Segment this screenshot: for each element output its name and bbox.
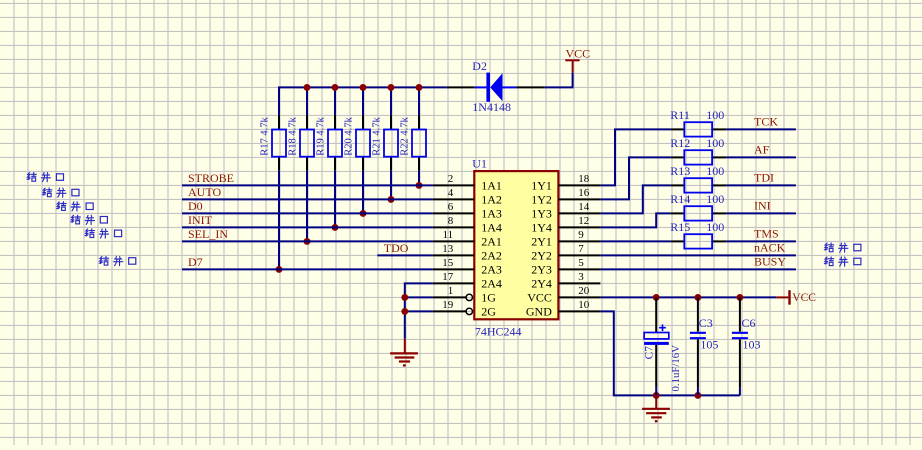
svg-text:2Y1: 2Y1 bbox=[531, 234, 552, 248]
port label 结并口 (right) #1 bbox=[824, 243, 860, 252]
resistor R22 4.7k (vertical) bbox=[400, 115, 427, 171]
svg-text:9: 9 bbox=[578, 229, 584, 241]
junction: bus / R22 bbox=[416, 84, 423, 91]
svg-text:C3: C3 bbox=[699, 316, 713, 330]
svg-text:TMS: TMS bbox=[754, 227, 779, 241]
svg-text:2A1: 2A1 bbox=[481, 234, 502, 248]
wire: R20 down to signal row bbox=[362, 171, 364, 214]
svg-text:INI: INI bbox=[754, 199, 771, 213]
svg-text:5: 5 bbox=[578, 257, 584, 269]
svg-text:STROBE: STROBE bbox=[188, 171, 234, 185]
port label 结并口 (to parallel port) #3 bbox=[57, 202, 94, 211]
junction: 1G / gnd tie bbox=[401, 294, 408, 301]
svg-text:R11: R11 bbox=[670, 108, 690, 122]
svg-text:1Y1: 1Y1 bbox=[531, 178, 552, 192]
svg-text:SEL_IN: SEL_IN bbox=[188, 227, 228, 241]
wire: net BUSY bbox=[600, 268, 796, 270]
wire: net SEL_IN bbox=[182, 240, 433, 242]
wire: GND rail from U1 pin 10 bbox=[600, 311, 740, 395]
svg-text:R15: R15 bbox=[670, 220, 690, 234]
U1 pin 14 (1Y3) bbox=[531, 201, 600, 220]
wire: R22 down to signal row bbox=[418, 171, 420, 186]
svg-text:VCC: VCC bbox=[566, 46, 591, 60]
resistor R11 100 (horizontal) bbox=[671, 122, 726, 136]
wire: net nACK bbox=[600, 254, 796, 256]
svg-text:8: 8 bbox=[448, 215, 454, 227]
svg-text:INIT: INIT bbox=[188, 213, 213, 227]
svg-text:74HC244: 74HC244 bbox=[475, 324, 522, 338]
svg-text:4: 4 bbox=[448, 187, 454, 199]
wire: net INI (U1 to R14) bbox=[600, 213, 670, 227]
svg-text:VCC: VCC bbox=[792, 292, 816, 304]
svg-text:1Y2: 1Y2 bbox=[531, 192, 552, 206]
wire: net TMS (R15 to port) bbox=[726, 240, 796, 242]
svg-text:R12: R12 bbox=[670, 136, 690, 150]
capacitor C3 105 bbox=[690, 297, 706, 395]
U1 pin 2 (1A1) bbox=[433, 173, 502, 192]
port label 结并口 (to parallel port) #4 bbox=[71, 215, 108, 224]
resistor R18 4.7k (vertical) bbox=[288, 115, 315, 171]
wire: net TMS (U1 to R15) bbox=[600, 240, 670, 242]
U1 pin 13 (2A2) bbox=[433, 243, 502, 262]
junction: R18 / signal wire bbox=[304, 238, 311, 245]
svg-text:C6: C6 bbox=[742, 316, 756, 330]
wire: net AF (R12 to port) bbox=[726, 156, 796, 158]
svg-text:R13: R13 bbox=[670, 164, 690, 178]
svg-text:100: 100 bbox=[706, 108, 724, 122]
svg-text:1Y4: 1Y4 bbox=[531, 220, 552, 234]
junction: bus / R18 bbox=[304, 84, 311, 91]
svg-text:1G: 1G bbox=[481, 290, 496, 304]
port label 结并口 (to parallel port) #6 bbox=[99, 256, 136, 265]
svg-text:2G: 2G bbox=[481, 304, 496, 318]
svg-text:15: 15 bbox=[442, 257, 454, 269]
wire: net INIT bbox=[182, 226, 433, 228]
svg-text:100: 100 bbox=[706, 192, 724, 206]
U1 pin 17 (2A4) bbox=[433, 271, 502, 290]
svg-text:10: 10 bbox=[578, 299, 590, 311]
wire: bus drop to R19 bbox=[334, 87, 336, 115]
svg-text:1A4: 1A4 bbox=[481, 220, 502, 234]
svg-text:VCC: VCC bbox=[527, 290, 552, 304]
svg-text:nACK: nACK bbox=[754, 241, 786, 255]
U1 pin 4 (1A2) bbox=[433, 187, 502, 206]
svg-text:3: 3 bbox=[578, 271, 584, 283]
IC U1 74HC244 bbox=[433, 171, 601, 319]
wire: net D0 bbox=[182, 212, 433, 214]
svg-text:D0: D0 bbox=[188, 199, 203, 213]
wire: net TDI (R13 to port) bbox=[726, 184, 796, 186]
U1 pin 6 (1A3) bbox=[433, 201, 502, 220]
svg-text:2Y3: 2Y3 bbox=[531, 262, 552, 276]
U1 pin 3 (2Y4) bbox=[531, 271, 600, 290]
svg-text:AF: AF bbox=[754, 143, 770, 157]
svg-text:GND: GND bbox=[526, 304, 552, 318]
wire: net TDO bbox=[377, 254, 433, 256]
svg-text:2A2: 2A2 bbox=[481, 248, 502, 262]
svg-text:1A2: 1A2 bbox=[481, 192, 502, 206]
svg-text:R19 4.7k: R19 4.7k bbox=[316, 117, 327, 156]
wire: net TDI (U1 to R13) bbox=[600, 185, 670, 213]
wire: bus drop to R22 bbox=[418, 87, 420, 115]
wire: pull-up bus (R17..R22 tops to diode D2) bbox=[279, 87, 447, 115]
svg-text:D2: D2 bbox=[472, 59, 487, 73]
svg-text:TCK: TCK bbox=[754, 115, 778, 129]
U1 pin 15 (2A3) bbox=[433, 257, 502, 276]
wire: net INI (R14 to port) bbox=[726, 212, 796, 214]
wire: net D7 bbox=[182, 268, 433, 270]
U1 pin 11 (2A1) bbox=[433, 229, 502, 248]
resistor R15 100 (horizontal) bbox=[671, 234, 726, 248]
svg-text:BUSY: BUSY bbox=[754, 255, 786, 269]
wire: 2G stub bbox=[405, 310, 433, 312]
svg-text:1: 1 bbox=[448, 285, 454, 297]
resistor R13 100 (horizontal) bbox=[671, 178, 726, 192]
svg-text:11: 11 bbox=[443, 229, 454, 241]
svg-text:7: 7 bbox=[578, 243, 584, 255]
svg-text:2Y4: 2Y4 bbox=[531, 276, 552, 290]
junction: 2G / gnd tie bbox=[401, 308, 408, 315]
wire: net AF (U1 to R12) bbox=[600, 157, 670, 199]
capacitor C7 0.1uF/16V (electrolytic) bbox=[644, 297, 669, 395]
svg-text:0.1uF/16V: 0.1uF/16V bbox=[670, 345, 682, 392]
svg-text:D7: D7 bbox=[188, 255, 203, 269]
wire: R18 down to signal row bbox=[306, 171, 308, 242]
junction: bus / R20 bbox=[360, 84, 367, 91]
svg-text:2Y2: 2Y2 bbox=[531, 248, 552, 262]
svg-text:R17 4.7k: R17 4.7k bbox=[260, 117, 271, 156]
U1 pin 10 (GND) bbox=[526, 299, 601, 318]
svg-text:TDO: TDO bbox=[384, 241, 409, 255]
svg-text:1A3: 1A3 bbox=[481, 206, 502, 220]
svg-text:19: 19 bbox=[442, 299, 454, 311]
junction: bus / R19 bbox=[332, 84, 339, 91]
junction: VCC rail / cap column x=656.2 bbox=[653, 294, 660, 301]
svg-text:R14: R14 bbox=[670, 192, 690, 206]
junction: R22 / signal wire bbox=[416, 182, 423, 189]
svg-text:17: 17 bbox=[442, 271, 454, 283]
svg-text:20: 20 bbox=[578, 285, 590, 297]
svg-text:R20 4.7k: R20 4.7k bbox=[344, 117, 355, 156]
ground symbol (U1 enables) bbox=[390, 339, 418, 366]
svg-text:1N4148: 1N4148 bbox=[472, 100, 511, 114]
wire: VCC rail from U1 pin 20 bbox=[600, 296, 776, 298]
svg-text:100: 100 bbox=[706, 164, 724, 178]
svg-text:12: 12 bbox=[578, 215, 589, 227]
svg-text:105: 105 bbox=[700, 337, 718, 351]
U1 body bbox=[474, 171, 558, 319]
U1 pin 12 (1Y4) bbox=[531, 215, 600, 234]
svg-text:103: 103 bbox=[743, 337, 761, 351]
junction: R17 / signal wire bbox=[276, 266, 283, 273]
U1 pin 19 (2G) bbox=[433, 299, 496, 318]
U1 pin 9 (2Y1) bbox=[531, 229, 600, 248]
resistor R14 100 (horizontal) bbox=[671, 206, 726, 220]
wire: bus drop to R20 bbox=[362, 87, 364, 115]
svg-text:14: 14 bbox=[578, 201, 590, 213]
svg-text:R21 4.7k: R21 4.7k bbox=[372, 117, 383, 156]
svg-text:R18 4.7k: R18 4.7k bbox=[288, 117, 299, 156]
svg-text:6: 6 bbox=[448, 201, 454, 213]
power port VCC (right) bbox=[776, 290, 790, 305]
U1 pin 5 (2Y3) bbox=[531, 257, 600, 276]
wire: 2A4/1G/2G tie to ground bbox=[405, 283, 433, 338]
wire: D2 anode to VCC bbox=[545, 73, 573, 88]
wire: net STROBE bbox=[182, 184, 433, 186]
svg-text:AUTO: AUTO bbox=[188, 185, 221, 199]
port label 结并口 (to parallel port) #1 bbox=[27, 173, 63, 182]
wire: 1G stub bbox=[405, 296, 433, 298]
junction: R20 / signal wire bbox=[360, 210, 367, 217]
junction: GND rail / C3 bbox=[694, 392, 701, 399]
power port VCC (top) bbox=[565, 60, 579, 72]
svg-text:13: 13 bbox=[442, 243, 454, 255]
capacitor C6 103 bbox=[732, 297, 748, 395]
resistor R12 100 (horizontal) bbox=[671, 150, 726, 164]
resistor R21 4.7k (vertical) bbox=[372, 115, 399, 171]
resistor R20 4.7k (vertical) bbox=[344, 115, 371, 171]
wire: R17 down to signal row bbox=[278, 171, 280, 270]
junction: VCC rail / cap column x=739.9 bbox=[736, 294, 743, 301]
port label 结并口 (right) #2 bbox=[824, 257, 860, 266]
svg-text:100: 100 bbox=[706, 220, 724, 234]
U1 pin 8 (1A4) bbox=[433, 215, 502, 234]
svg-text:2A4: 2A4 bbox=[481, 276, 502, 290]
wire: net TCK (U1 to R11) bbox=[600, 129, 670, 185]
svg-text:2A3: 2A3 bbox=[481, 262, 502, 276]
svg-text:16: 16 bbox=[578, 187, 590, 199]
diode D2 1N4148 bbox=[447, 73, 545, 102]
U1 pin 20 (VCC) bbox=[527, 285, 600, 304]
svg-text:R22 4.7k: R22 4.7k bbox=[400, 117, 411, 156]
wire: net TCK (R11 to port) bbox=[726, 128, 796, 130]
U1 pin 1 (1G) bbox=[433, 285, 496, 304]
junction: bus / R21 bbox=[388, 84, 395, 91]
junction: VCC rail / cap column x=697.9 bbox=[694, 294, 701, 301]
svg-text:1A1: 1A1 bbox=[481, 178, 502, 192]
U1 pin 16 (1Y2) bbox=[531, 187, 600, 206]
U1 pin 7 (2Y2) bbox=[531, 243, 600, 262]
svg-text:1Y3: 1Y3 bbox=[531, 206, 552, 220]
wire: R19 down to signal row bbox=[334, 171, 336, 228]
resistor R17 4.7k (vertical) bbox=[260, 115, 287, 171]
svg-text:TDI: TDI bbox=[754, 171, 774, 185]
junction: GND rail / C7 bbox=[653, 392, 660, 399]
wire: bus drop to R18 bbox=[306, 87, 308, 115]
wire: net AUTO bbox=[182, 198, 433, 200]
junction: R21 / signal wire bbox=[388, 196, 395, 203]
port label 结并口 (to parallel port) #5 bbox=[85, 229, 122, 238]
svg-text:18: 18 bbox=[578, 173, 590, 185]
wire: bus drop to R21 bbox=[390, 87, 392, 115]
svg-text:U1: U1 bbox=[472, 156, 487, 170]
svg-text:C7: C7 bbox=[644, 346, 656, 360]
wire: R21 down to signal row bbox=[390, 171, 392, 200]
U1 pin 18 (1Y1) bbox=[531, 173, 600, 192]
svg-text:2: 2 bbox=[448, 173, 454, 185]
resistor R19 4.7k (vertical) bbox=[316, 115, 343, 171]
junction: R19 / signal wire bbox=[332, 224, 339, 231]
port label 结并口 (to parallel port) #2 bbox=[43, 188, 80, 197]
svg-text:100: 100 bbox=[706, 136, 724, 150]
ground symbol (supply) bbox=[642, 395, 670, 421]
